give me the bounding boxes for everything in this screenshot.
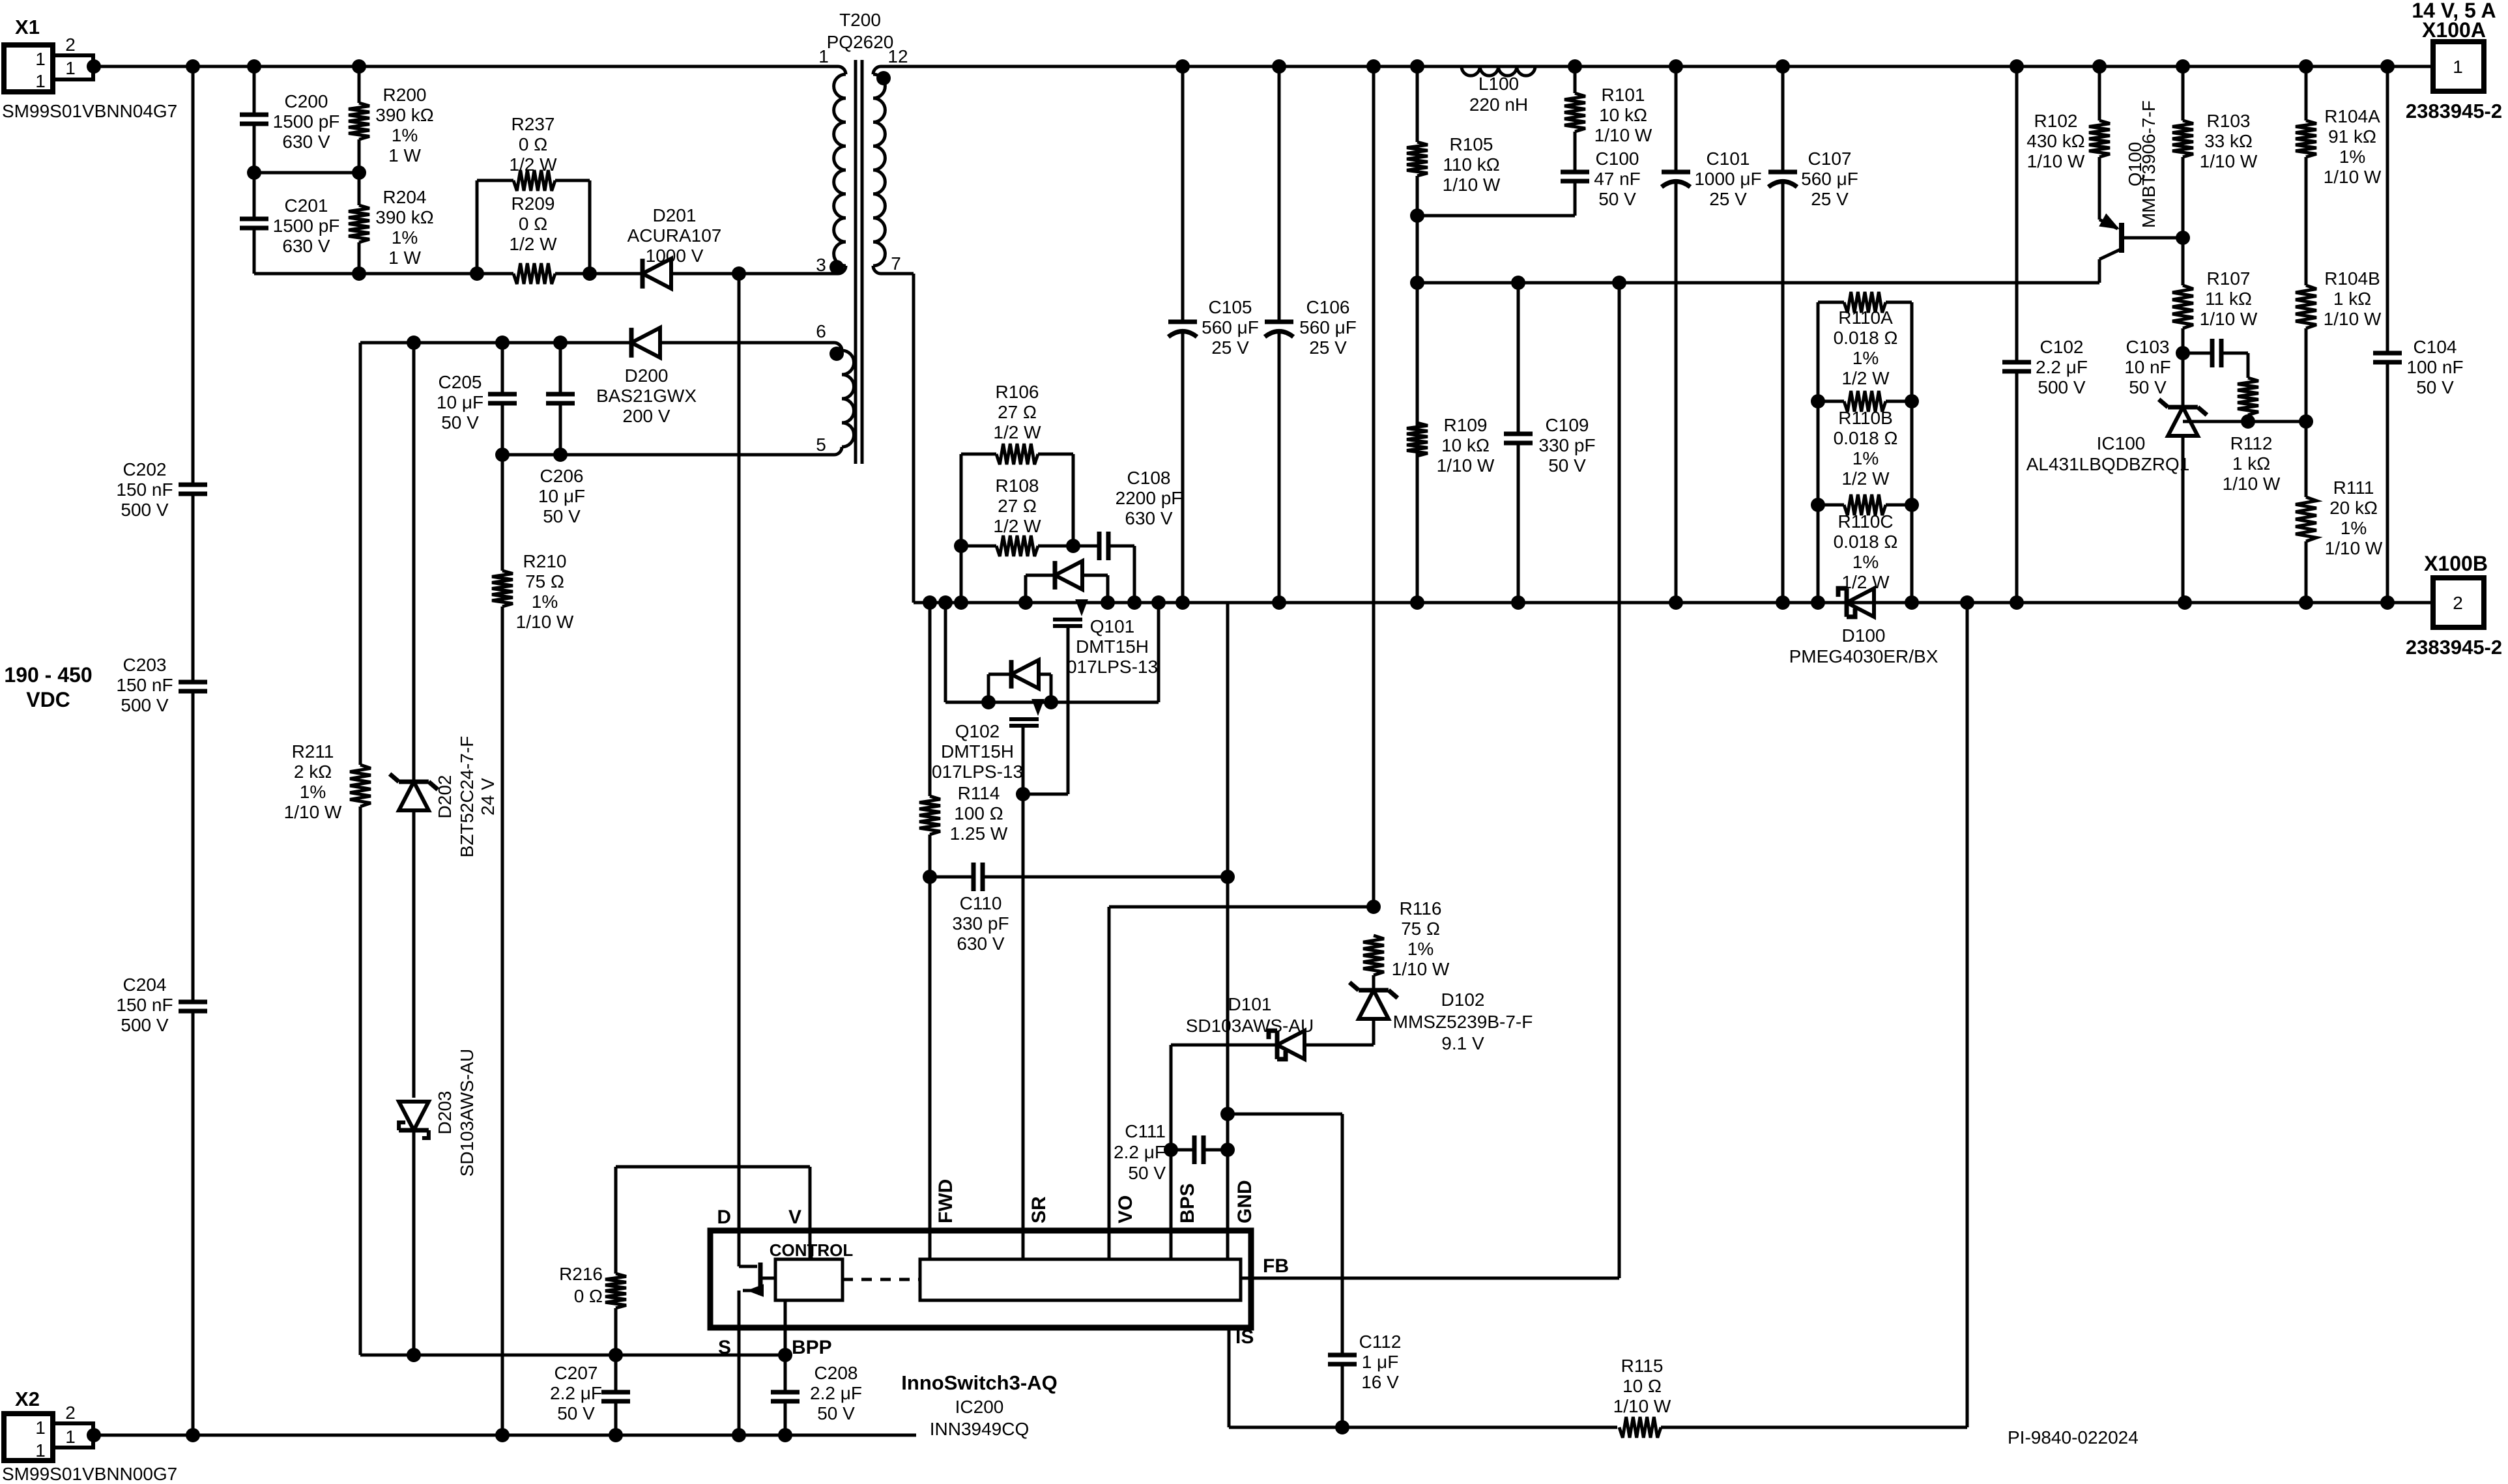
svg-text:MMBT3906-7-F: MMBT3906-7-F xyxy=(2139,100,2159,228)
IC200 dashed link xyxy=(843,1278,920,1281)
resistor R112 xyxy=(2247,353,2250,378)
inductor L100 xyxy=(1462,66,1535,76)
svg-text:10 kΩ: 10 kΩ xyxy=(1441,435,1490,455)
svg-text:75 Ω: 75 Ω xyxy=(1401,919,1440,939)
svg-text:DMT15H: DMT15H xyxy=(1076,636,1149,657)
wire BPP pin down xyxy=(784,1300,787,1355)
svg-text:560 μF: 560 μF xyxy=(1299,317,1357,337)
svg-text:2.2 μF: 2.2 μF xyxy=(1114,1142,1166,1162)
svg-text:C102: C102 xyxy=(2040,337,2084,357)
wire snubber right bar xyxy=(1072,454,1075,546)
node X1 pin1 xyxy=(87,59,101,74)
capacitor C109 xyxy=(1517,283,1520,434)
svg-text:R107: R107 xyxy=(2207,268,2251,289)
svg-text:C202: C202 xyxy=(123,459,167,479)
wire GND pin line xyxy=(1226,603,1230,1231)
svg-text:27 Ω: 27 Ω xyxy=(998,402,1037,422)
svg-text:R209: R209 xyxy=(512,193,555,214)
capacitor C207 xyxy=(614,1355,618,1392)
svg-text:Q101: Q101 xyxy=(1090,616,1135,636)
svg-text:330 pF: 330 pF xyxy=(1538,435,1595,455)
svg-text:SD103AWS-AU: SD103AWS-AU xyxy=(457,1049,477,1177)
svg-text:16 V: 16 V xyxy=(1361,1372,1399,1392)
IC200 CONTROL box xyxy=(775,1259,843,1300)
svg-text:X100B: X100B xyxy=(2424,552,2488,575)
svg-text:V: V xyxy=(788,1206,801,1228)
svg-text:1%: 1% xyxy=(1852,552,1879,572)
svg-text:390 kΩ: 390 kΩ xyxy=(375,207,433,227)
svg-text:BAS21GWX: BAS21GWX xyxy=(596,386,697,406)
svg-text:560 μF: 560 μF xyxy=(1801,169,1858,189)
wire V pin feed xyxy=(616,1165,810,1169)
svg-text:D101: D101 xyxy=(1228,994,1272,1014)
svg-text:1/10 W: 1/10 W xyxy=(1392,959,1450,979)
svg-text:R112: R112 xyxy=(2230,433,2273,453)
resistor R107 xyxy=(2172,285,2193,328)
svg-text:2: 2 xyxy=(65,1403,76,1423)
svg-text:50 V: 50 V xyxy=(1128,1163,1166,1183)
svg-text:33 kΩ: 33 kΩ xyxy=(2204,131,2253,151)
svg-text:D201: D201 xyxy=(653,205,697,225)
svg-text:1: 1 xyxy=(2453,57,2463,77)
zener D202 xyxy=(399,782,429,810)
connector X100A xyxy=(2433,42,2484,91)
svg-text:R104A: R104A xyxy=(2324,106,2380,126)
svg-text:390 kΩ: 390 kΩ xyxy=(375,105,433,125)
svg-text:X100A: X100A xyxy=(2422,18,2486,42)
svg-text:0.018 Ω: 0.018 Ω xyxy=(1834,532,1898,552)
svg-text:500 V: 500 V xyxy=(2038,377,2085,397)
svg-text:IC200: IC200 xyxy=(955,1397,1004,1417)
resistor R210 xyxy=(501,455,504,571)
svg-text:12: 12 xyxy=(887,46,908,66)
wire Q102 drain row xyxy=(944,603,947,702)
wire D200 to pin6 xyxy=(660,341,834,345)
svg-text:2.2 μF: 2.2 μF xyxy=(2036,357,2088,377)
wire D202 chain xyxy=(412,343,416,782)
svg-text:C104: C104 xyxy=(2414,337,2457,357)
svg-text:1: 1 xyxy=(35,49,46,69)
svg-text:0 Ω: 0 Ω xyxy=(519,214,547,234)
capacitor C205 xyxy=(501,343,504,394)
svg-text:C200: C200 xyxy=(285,91,328,111)
svg-text:BZT52C24-7-F: BZT52C24-7-F xyxy=(457,736,477,858)
svg-text:1: 1 xyxy=(65,58,76,78)
svg-text:2: 2 xyxy=(65,35,76,55)
svg-text:C103: C103 xyxy=(2126,337,2170,357)
svg-text:25 V: 25 V xyxy=(1211,337,1249,358)
svg-text:1/10 W: 1/10 W xyxy=(1437,455,1495,476)
svg-text:MMSZ5239B-7-F: MMSZ5239B-7-F xyxy=(1393,1012,1533,1032)
transistor Q101 xyxy=(1080,603,1084,611)
svg-text:L100: L100 xyxy=(1478,74,1519,94)
svg-text:1%: 1% xyxy=(1852,348,1879,368)
svg-text:R105: R105 xyxy=(1450,134,1493,154)
svg-text:D200: D200 xyxy=(625,365,669,386)
svg-text:S: S xyxy=(718,1337,731,1358)
connector X1 xyxy=(4,45,53,92)
svg-text:10 μF: 10 μF xyxy=(437,392,483,412)
zener D102 xyxy=(1372,975,1376,990)
svg-text:27 Ω: 27 Ω xyxy=(998,496,1037,516)
diode D101 xyxy=(1304,1044,1374,1047)
wire bias top row xyxy=(360,341,631,345)
svg-text:017LPS-13: 017LPS-13 xyxy=(932,762,1023,782)
svg-text:50 V: 50 V xyxy=(441,412,479,433)
svg-text:500 V: 500 V xyxy=(121,500,168,520)
svg-text:1%: 1% xyxy=(532,592,558,612)
resistor R103 xyxy=(2182,66,2185,121)
capacitor C111 xyxy=(1171,1149,1194,1152)
svg-text:2383945-2: 2383945-2 xyxy=(2406,100,2502,122)
svg-text:100 nF: 100 nF xyxy=(2406,357,2463,377)
capacitor C200 xyxy=(253,66,256,115)
svg-text:R101: R101 xyxy=(1602,85,1645,105)
wire BPP feed row xyxy=(360,1354,785,1357)
wire drain line D xyxy=(738,274,741,1231)
wire IS return xyxy=(1228,1328,1231,1427)
svg-text:330 pF: 330 pF xyxy=(952,913,1009,934)
svg-text:T200: T200 xyxy=(839,10,881,30)
wire left HV spine xyxy=(192,66,195,485)
resistor R102 xyxy=(2098,66,2101,121)
svg-text:R109: R109 xyxy=(1444,415,1488,435)
svg-text:DMT15H: DMT15H xyxy=(941,741,1014,762)
wire bias bottom row xyxy=(502,453,834,457)
svg-text:25 V: 25 V xyxy=(1709,189,1747,209)
svg-text:1 μF: 1 μF xyxy=(1362,1352,1399,1372)
capacitor C206 xyxy=(559,343,562,394)
svg-text:1: 1 xyxy=(65,1427,76,1447)
svg-text:C108: C108 xyxy=(1127,468,1171,488)
capacitor C102 xyxy=(2015,66,2019,362)
wire pin7 down xyxy=(881,272,914,276)
capacitor C208 xyxy=(784,1355,787,1392)
svg-text:1000 V: 1000 V xyxy=(646,246,704,266)
capacitor C110 xyxy=(930,876,973,879)
svg-text:10 nF: 10 nF xyxy=(2124,357,2171,377)
svg-text:1/10 W: 1/10 W xyxy=(2324,309,2382,329)
resistor R108 xyxy=(961,545,996,548)
svg-text:R111: R111 xyxy=(2333,478,2374,498)
wire IC100 row xyxy=(2183,420,2306,423)
svg-text:1/10 W: 1/10 W xyxy=(1613,1396,1671,1416)
svg-text:1/10 W: 1/10 W xyxy=(2325,538,2383,558)
svg-text:1%: 1% xyxy=(392,227,418,248)
capacitor C107 xyxy=(1781,66,1785,172)
svg-text:10 Ω: 10 Ω xyxy=(1622,1376,1662,1396)
resistor R106 xyxy=(961,453,996,456)
diode D203 xyxy=(399,1102,429,1130)
svg-text:SM99S01VBNN00G7: SM99S01VBNN00G7 xyxy=(2,1464,177,1484)
resistor R104A xyxy=(2305,66,2308,121)
svg-text:1/2 W: 1/2 W xyxy=(1841,368,1890,388)
svg-text:500 V: 500 V xyxy=(121,1015,168,1035)
capacitor C100 xyxy=(1561,170,1589,175)
transformer secondary winding 12-7 xyxy=(873,66,881,74)
svg-text:R110B: R110B xyxy=(1838,408,1893,428)
svg-text:R114: R114 xyxy=(958,783,1000,803)
svg-text:0.018 Ω: 0.018 Ω xyxy=(1834,428,1898,448)
svg-text:C201: C201 xyxy=(285,195,328,216)
svg-text:C112: C112 xyxy=(1359,1332,1402,1352)
svg-text:R108: R108 xyxy=(996,476,1039,496)
svg-text:430 kΩ: 430 kΩ xyxy=(2026,131,2084,151)
svg-text:R104B: R104B xyxy=(2324,268,2380,289)
resistor R101 xyxy=(1574,66,1577,93)
wire VO sense riser xyxy=(1372,66,1376,907)
svg-text:10 μF: 10 μF xyxy=(538,486,585,506)
svg-text:C106: C106 xyxy=(1306,297,1350,317)
svg-text:C203: C203 xyxy=(123,655,167,675)
wire node C200-R200 xyxy=(254,171,359,175)
svg-text:FB: FB xyxy=(1263,1255,1289,1277)
svg-text:25 V: 25 V xyxy=(1309,337,1347,358)
svg-text:6: 6 xyxy=(816,321,826,341)
svg-text:R204: R204 xyxy=(383,187,427,207)
wire GND-IS jog xyxy=(1228,1113,1342,1116)
svg-text:VO: VO xyxy=(1115,1195,1136,1223)
svg-text:R115: R115 xyxy=(1621,1356,1664,1376)
svg-text:50 V: 50 V xyxy=(817,1403,855,1423)
svg-text:630 V: 630 V xyxy=(282,236,330,256)
svg-text:50 V: 50 V xyxy=(557,1403,595,1423)
svg-text:1%: 1% xyxy=(1852,448,1879,468)
svg-text:1 W: 1 W xyxy=(388,145,421,165)
svg-text:50 V: 50 V xyxy=(1598,189,1636,209)
svg-text:C110: C110 xyxy=(960,893,1002,913)
resistor R209 xyxy=(513,263,555,284)
svg-text:R210: R210 xyxy=(523,551,567,571)
svg-text:PQ2620: PQ2620 xyxy=(827,32,894,52)
shunt regulator IC100 xyxy=(2168,407,2198,436)
IC IC200 body xyxy=(710,1231,1251,1328)
svg-text:AL431LBQDBZRQ1: AL431LBQDBZRQ1 xyxy=(2026,454,2190,474)
IC200 pin FB xyxy=(1241,1277,1251,1280)
svg-text:1%: 1% xyxy=(300,782,326,802)
wire snubber row xyxy=(254,272,477,276)
wire secondary top rail xyxy=(914,601,2433,605)
resistor R109 xyxy=(1407,423,1428,456)
svg-text:1/10 W: 1/10 W xyxy=(2027,151,2085,171)
svg-text:C107: C107 xyxy=(1808,149,1852,169)
svg-text:PI-9840-022024: PI-9840-022024 xyxy=(2008,1427,2139,1448)
svg-text:C101: C101 xyxy=(1707,149,1750,169)
svg-text:10 kΩ: 10 kΩ xyxy=(1599,105,1647,125)
svg-text:1/10 W: 1/10 W xyxy=(2324,167,2382,187)
svg-text:InnoSwitch3-AQ: InnoSwitch3-AQ xyxy=(901,1371,1057,1394)
resistor R110C xyxy=(1818,504,1844,507)
svg-text:2383945-2: 2383945-2 xyxy=(2406,636,2502,659)
wire VO pin riser xyxy=(1108,907,1111,1231)
svg-text:150 nF: 150 nF xyxy=(116,479,173,500)
svg-text:R103: R103 xyxy=(2207,111,2251,131)
svg-text:0 Ω: 0 Ω xyxy=(574,1286,603,1306)
resistor R110B xyxy=(1818,400,1844,403)
svg-text:47 nF: 47 nF xyxy=(1594,169,1641,189)
svg-text:ACURA107: ACURA107 xyxy=(627,225,722,246)
svg-text:2 kΩ: 2 kΩ xyxy=(294,762,332,782)
svg-text:IS: IS xyxy=(1235,1326,1254,1348)
resistor R110A xyxy=(1817,302,1820,603)
svg-text:1%: 1% xyxy=(2341,518,2367,538)
svg-text:1%: 1% xyxy=(1407,939,1434,959)
transistor Q102 xyxy=(1037,702,1040,711)
svg-text:Q102: Q102 xyxy=(955,721,1000,741)
capacitor C201 xyxy=(253,173,256,219)
svg-text:017LPS-13: 017LPS-13 xyxy=(1067,657,1158,677)
transformer primary winding 1-3 xyxy=(838,66,846,74)
wire FB net xyxy=(1251,1277,1619,1280)
svg-text:0.018 Ω: 0.018 Ω xyxy=(1834,328,1898,348)
diode Q102 body xyxy=(987,674,990,702)
svg-text:D100: D100 xyxy=(1842,625,1886,646)
svg-text:D: D xyxy=(717,1206,731,1228)
connector X2 xyxy=(4,1414,53,1461)
transistor Q100 xyxy=(2098,215,2101,220)
svg-text:2200 pF: 2200 pF xyxy=(1116,488,1183,508)
svg-text:SR: SR xyxy=(1028,1196,1050,1223)
svg-text:200 V: 200 V xyxy=(622,406,670,426)
svg-text:1.25 W: 1.25 W xyxy=(950,823,1008,844)
resistor R216 xyxy=(614,1167,618,1274)
svg-text:1: 1 xyxy=(35,1418,46,1438)
svg-text:1500 pF: 1500 pF xyxy=(273,216,340,236)
svg-text:C111: C111 xyxy=(1125,1121,1166,1141)
svg-text:630 V: 630 V xyxy=(957,934,1004,954)
resistor R204 xyxy=(358,173,361,205)
resistor R111 xyxy=(2305,421,2308,497)
svg-text:1/2 W: 1/2 W xyxy=(993,516,1041,536)
wire S pin down xyxy=(738,1328,741,1435)
svg-text:R110C: R110C xyxy=(1838,511,1893,532)
diode D201 xyxy=(642,259,671,289)
svg-text:5: 5 xyxy=(816,435,826,455)
pin3 polarity dot xyxy=(829,260,844,274)
svg-text:C206: C206 xyxy=(540,466,584,486)
wire pin12 to rail xyxy=(881,65,2433,68)
svg-text:1: 1 xyxy=(35,1440,46,1461)
resistor R105 xyxy=(1416,66,1419,142)
svg-text:1: 1 xyxy=(35,71,46,91)
svg-text:1: 1 xyxy=(818,46,829,66)
svg-text:7: 7 xyxy=(891,253,901,274)
svg-text:R110A: R110A xyxy=(1838,307,1893,328)
diode Q101 body xyxy=(1024,575,1028,603)
svg-text:2.2 μF: 2.2 μF xyxy=(810,1383,862,1403)
svg-text:1/2 W: 1/2 W xyxy=(509,154,557,175)
svg-text:560 μF: 560 μF xyxy=(1202,317,1259,337)
svg-text:1/10 W: 1/10 W xyxy=(284,802,342,822)
svg-text:150 nF: 150 nF xyxy=(116,675,173,695)
svg-text:C100: C100 xyxy=(1596,149,1639,169)
svg-text:190 - 450: 190 - 450 xyxy=(4,663,92,687)
capacitor C204 xyxy=(179,1000,207,1005)
IC200 pin stubs top xyxy=(929,1231,932,1259)
svg-text:1/10 W: 1/10 W xyxy=(2223,474,2281,494)
capacitor C101 xyxy=(1675,66,1678,172)
svg-text:100 Ω: 100 Ω xyxy=(954,803,1003,823)
svg-text:1 kΩ: 1 kΩ xyxy=(2232,453,2270,474)
resistor R211 xyxy=(350,765,371,806)
svg-text:D202: D202 xyxy=(435,775,455,819)
svg-text:C204: C204 xyxy=(123,975,167,995)
resistor R104B xyxy=(2296,285,2316,328)
wire to D201 xyxy=(590,272,642,276)
svg-text:SM99S01VBNN04G7: SM99S01VBNN04G7 xyxy=(2,101,177,121)
svg-text:C105: C105 xyxy=(1209,297,1252,317)
svg-text:1 kΩ: 1 kΩ xyxy=(2333,289,2371,309)
svg-text:50 V: 50 V xyxy=(2129,377,2167,397)
svg-text:1/10 W: 1/10 W xyxy=(1443,175,1501,195)
pin12 polarity dot xyxy=(876,71,891,85)
IC200 internal MOSFET xyxy=(738,1231,741,1266)
capacitor C106 xyxy=(1278,66,1281,322)
svg-text:2: 2 xyxy=(2453,593,2463,613)
capacitor C104 xyxy=(2386,66,2389,353)
resistor R116 xyxy=(1363,935,1384,975)
svg-text:75 Ω: 75 Ω xyxy=(525,571,564,592)
transformer bias winding 6-5 xyxy=(834,343,842,350)
svg-text:R211: R211 xyxy=(292,741,334,762)
svg-text:20 kΩ: 20 kΩ xyxy=(2329,498,2378,518)
svg-text:11 kΩ: 11 kΩ xyxy=(2205,289,2252,309)
svg-text:BPP: BPP xyxy=(792,1337,832,1358)
diode D100 xyxy=(1847,588,1874,617)
svg-text:500 V: 500 V xyxy=(121,695,168,715)
svg-text:D203: D203 xyxy=(435,1091,455,1135)
wire snubber left bar xyxy=(960,454,963,603)
svg-text:2.2 μF: 2.2 μF xyxy=(550,1383,602,1403)
svg-text:1/10 W: 1/10 W xyxy=(2200,151,2258,171)
svg-text:C208: C208 xyxy=(814,1363,858,1383)
svg-text:R200: R200 xyxy=(383,85,427,105)
svg-text:110 kΩ: 110 kΩ xyxy=(1443,154,1499,175)
svg-text:C207: C207 xyxy=(555,1363,598,1383)
svg-text:PMEG4030ER/BX: PMEG4030ER/BX xyxy=(1789,646,1939,666)
svg-text:R237: R237 xyxy=(512,114,555,134)
svg-text:1/10 W: 1/10 W xyxy=(2200,309,2258,329)
svg-text:D102: D102 xyxy=(1441,990,1485,1010)
capacitor C112 xyxy=(1328,1353,1357,1358)
svg-text:0 Ω: 0 Ω xyxy=(519,134,547,154)
capacitor C108 xyxy=(1073,545,1099,548)
svg-text:R106: R106 xyxy=(996,382,1039,402)
svg-text:IC100: IC100 xyxy=(2097,433,2146,453)
svg-text:1%: 1% xyxy=(2339,147,2365,167)
svg-text:1/2 W: 1/2 W xyxy=(509,234,557,254)
wire R105-C100 row xyxy=(1417,214,1575,218)
svg-text:INN3949CQ: INN3949CQ xyxy=(930,1419,1030,1439)
node drain xyxy=(732,266,746,281)
capacitor C202 xyxy=(179,483,207,487)
svg-text:1/2 W: 1/2 W xyxy=(993,422,1041,442)
svg-text:C205: C205 xyxy=(439,372,482,392)
svg-text:1/10 W: 1/10 W xyxy=(516,612,574,632)
svg-text:X2: X2 xyxy=(15,1388,40,1410)
svg-text:BPS: BPS xyxy=(1177,1183,1198,1223)
svg-text:R102: R102 xyxy=(2034,111,2078,131)
svg-text:150 nF: 150 nF xyxy=(116,995,173,1015)
svg-text:220 nH: 220 nH xyxy=(1469,94,1528,115)
svg-text:1/10 W: 1/10 W xyxy=(1594,125,1652,145)
svg-text:1/2 W: 1/2 W xyxy=(1841,468,1890,489)
resistor R237 xyxy=(476,180,479,274)
wire BPS pin line xyxy=(1170,1045,1173,1231)
pin6 polarity dot xyxy=(829,347,844,361)
connector X100B xyxy=(2433,578,2484,627)
svg-text:1 W: 1 W xyxy=(388,248,421,268)
